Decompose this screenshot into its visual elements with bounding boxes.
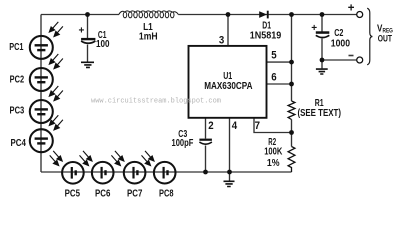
svg-text:+: + (311, 23, 317, 34)
svg-text:+: + (348, 2, 355, 14)
svg-text:(SEE TEXT): (SEE TEXT) (298, 108, 342, 119)
svg-text:OUT: OUT (378, 33, 393, 43)
svg-text:7: 7 (255, 120, 260, 132)
svg-text:PC2: PC2 (10, 74, 25, 85)
svg-text:1%: 1% (267, 158, 280, 169)
svg-text:1mH: 1mH (139, 32, 158, 43)
svg-text:www.circuitsstream.blogspot.co: www.circuitsstream.blogspot.com (91, 98, 221, 106)
svg-text:4: 4 (232, 120, 237, 132)
svg-text:C2: C2 (334, 28, 343, 39)
svg-text:MAX630CPA: MAX630CPA (204, 81, 252, 92)
svg-text:PC7: PC7 (127, 188, 142, 199)
svg-text:PC6: PC6 (95, 188, 111, 199)
svg-text:5: 5 (271, 50, 276, 62)
svg-text:100pF: 100pF (172, 138, 194, 149)
svg-text:100K: 100K (264, 147, 282, 158)
svg-text:+: + (79, 26, 85, 37)
svg-text:3: 3 (219, 35, 224, 47)
svg-text:1N5819: 1N5819 (250, 31, 282, 42)
svg-text:2: 2 (208, 120, 213, 132)
svg-text:PC5: PC5 (65, 188, 81, 199)
svg-text:PC1: PC1 (9, 42, 24, 53)
svg-text:1000: 1000 (331, 39, 350, 50)
svg-text:6: 6 (271, 72, 276, 84)
svg-text:PC4: PC4 (11, 138, 27, 149)
svg-text:PC3: PC3 (10, 106, 25, 117)
svg-text:PC8: PC8 (159, 188, 174, 199)
svg-text:100: 100 (96, 39, 110, 50)
